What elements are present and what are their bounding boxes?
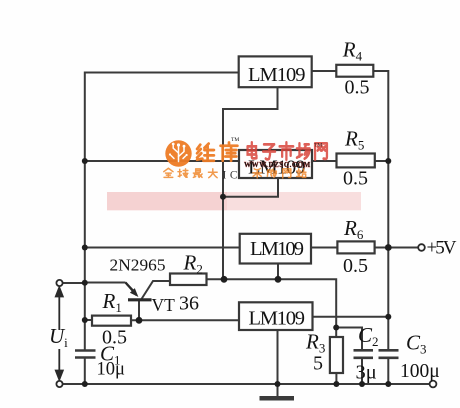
svg-text:TM: TM [231, 137, 239, 143]
svg-text:10μ: 10μ [97, 360, 126, 380]
svg-text:0.5: 0.5 [102, 327, 127, 349]
svg-text:0.5: 0.5 [343, 255, 368, 277]
svg-text:0.5: 0.5 [345, 77, 370, 99]
svg-text:R6: R6 [343, 216, 364, 242]
svg-text:C3: C3 [406, 331, 427, 357]
svg-text:Ui: Ui [49, 324, 68, 350]
svg-text:IC: IC [223, 169, 242, 181]
svg-text:R4: R4 [342, 38, 363, 64]
svg-text:C2: C2 [358, 323, 379, 349]
svg-text:36: 36 [179, 293, 199, 315]
svg-text:100μ: 100μ [400, 361, 440, 382]
svg-text:LM109: LM109 [248, 64, 306, 86]
svg-text:2N2965: 2N2965 [110, 256, 166, 275]
svg-text:TM: TM [314, 143, 322, 149]
svg-text:0.5: 0.5 [343, 168, 368, 190]
svg-text:R2: R2 [183, 251, 203, 277]
svg-text:+5V: +5V [427, 238, 457, 259]
svg-text:3μ: 3μ [356, 362, 377, 384]
svg-text:R5: R5 [344, 127, 364, 153]
svg-text:WWW.DZSC.COM: WWW.DZSC.COM [244, 161, 311, 169]
svg-text:VT: VT [152, 295, 176, 315]
svg-text:5: 5 [313, 353, 323, 375]
svg-text:R1: R1 [102, 289, 122, 315]
svg-text:LM109: LM109 [249, 308, 306, 330]
svg-text:LM109: LM109 [250, 238, 304, 260]
